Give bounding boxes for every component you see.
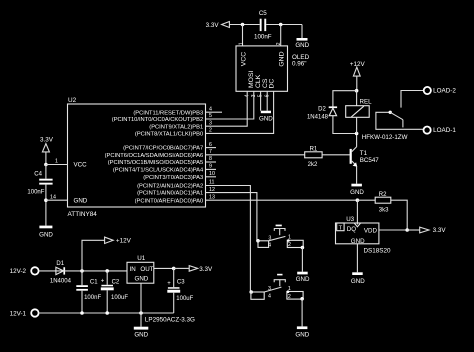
capacitor C2 (polarized) bbox=[101, 271, 129, 313]
wire 12V-2 to D1 bbox=[39, 270, 56, 272]
pin 11 PA2 bbox=[209, 180, 215, 186]
svg-text:(PCINT2/AIN1/ADC2)PA2: (PCINT2/AIN1/ADC2)PA2 bbox=[137, 184, 203, 190]
wire DQ node down to U3 bbox=[356, 200, 358, 224]
svg-text:100nF: 100nF bbox=[254, 34, 272, 41]
wire PA0 to DS18S20 DQ node bbox=[206, 199, 358, 201]
ic U3 DS18S20 bbox=[336, 216, 391, 254]
wire top node to D2 branch bbox=[333, 91, 357, 108]
relay contact common wire bbox=[376, 112, 424, 129]
wire OLED MOSI down to PB1 row bbox=[206, 91, 248, 126]
svg-text:4: 4 bbox=[209, 106, 212, 112]
relay contact blade bbox=[390, 112, 403, 119]
svg-text:3.3V: 3.3V bbox=[199, 266, 213, 273]
supply +12V (relay, up arrow) bbox=[350, 61, 366, 91]
pin 12 PA1 bbox=[209, 187, 215, 193]
OLED pin name GND bbox=[278, 51, 285, 66]
pin name PA4 bbox=[113, 168, 204, 174]
pin 3 (OLED CLK) bbox=[251, 94, 257, 97]
junction relay top node bbox=[355, 89, 359, 93]
svg-text:3.3V: 3.3V bbox=[40, 136, 54, 143]
svg-text:GND: GND bbox=[135, 275, 149, 282]
pin name PA3 bbox=[143, 175, 203, 181]
button S2 right contact pins 1/2 bbox=[287, 286, 303, 300]
button S2 actuator bbox=[274, 274, 285, 286]
svg-text:2k2: 2k2 bbox=[308, 162, 318, 168]
wire PA6 to R1 bbox=[206, 154, 305, 156]
wire 3.3V rail to C5 left bbox=[229, 24, 259, 26]
svg-text:GND: GND bbox=[351, 278, 365, 285]
junction C2 top node bbox=[105, 269, 109, 273]
svg-text:(PCINT0/AREF/ADC0)PA0: (PCINT0/AREF/ADC0)PA0 bbox=[135, 198, 204, 204]
ground (U1 / rail) bbox=[134, 327, 149, 339]
svg-text:5: 5 bbox=[209, 113, 212, 119]
wire ground rail 12V-1 bbox=[39, 312, 174, 314]
pin 4 stub PB3 bbox=[206, 106, 223, 112]
svg-text:1: 1 bbox=[288, 235, 291, 241]
OLED pin name CLK bbox=[255, 74, 262, 88]
svg-text:9: 9 bbox=[209, 164, 212, 170]
supply 3.3V (after U1, right arrow) bbox=[174, 266, 213, 273]
connector LOAD-2 bbox=[424, 87, 457, 95]
svg-text:IN: IN bbox=[130, 266, 136, 273]
junction S1 left node bbox=[256, 239, 260, 243]
svg-text:ATTINY84: ATTINY84 bbox=[68, 211, 98, 218]
wire U3 VDD to 3.3V node bbox=[379, 229, 407, 231]
OLED pin name VCC bbox=[240, 52, 247, 66]
pin 6 (OLED DC) bbox=[264, 94, 270, 97]
ground (S1) bbox=[296, 272, 310, 284]
svg-text:12V-2: 12V-2 bbox=[10, 268, 27, 275]
svg-text:6: 6 bbox=[209, 142, 212, 148]
pin 14 GND wire bbox=[46, 194, 68, 200]
svg-text:3: 3 bbox=[209, 120, 212, 126]
svg-text:HFKW-012-1ZW: HFKW-012-1ZW bbox=[362, 134, 408, 141]
wire R1 to T1 base bbox=[322, 154, 350, 156]
wire U1 output to C3 node bbox=[154, 267, 174, 269]
svg-text:1: 1 bbox=[288, 286, 291, 292]
svg-text:C5: C5 bbox=[259, 10, 267, 17]
connector 12V-1 bbox=[10, 309, 39, 317]
wire PA2 to button S2 bbox=[206, 186, 251, 293]
pin name PB0 bbox=[135, 132, 203, 138]
diode D2 1N4148 bbox=[307, 106, 337, 120]
supply 3.3V (left of U2, up arrow) bbox=[40, 136, 54, 164]
svg-text:1N4004: 1N4004 bbox=[50, 278, 72, 284]
pin 5 (OLED CS) bbox=[258, 94, 264, 97]
pin 10 stub PA3 bbox=[206, 171, 217, 177]
pin name PA6 bbox=[105, 153, 204, 159]
junction DQ node bbox=[356, 198, 360, 202]
wire OLED pin2 GND drop bbox=[280, 25, 282, 46]
pin 13 PA0 bbox=[209, 194, 215, 200]
svg-text:R1: R1 bbox=[310, 146, 318, 152]
capacitor C3 (polarized) bbox=[167, 268, 193, 313]
wire D1 to U1 input bbox=[56, 270, 127, 272]
svg-text:1: 1 bbox=[55, 159, 58, 165]
pin name PA7 bbox=[123, 146, 203, 152]
supply 3.3V (top, left-pointing arrow) bbox=[206, 22, 230, 29]
svg-text:U3: U3 bbox=[346, 216, 354, 223]
svg-text:GND: GND bbox=[278, 51, 285, 66]
supply +12V (bottom left, right arrow) bbox=[82, 237, 132, 271]
svg-text:(PCINT10/INT0/OC0A/CKOUT)PB2: (PCINT10/INT0/OC0A/CKOUT)PB2 bbox=[112, 117, 203, 123]
pin name PB2 bbox=[112, 117, 203, 123]
svg-text:2: 2 bbox=[276, 42, 282, 45]
OLED pin name MOSI bbox=[248, 71, 255, 88]
svg-text:12: 12 bbox=[209, 187, 215, 193]
pin 1 (OLED VCC) bbox=[239, 42, 245, 45]
OLED pin name CS bbox=[262, 78, 269, 88]
svg-text:GND: GND bbox=[295, 331, 309, 338]
junction 3.3V pull-up node bbox=[405, 228, 409, 232]
svg-text:GND: GND bbox=[295, 42, 309, 49]
svg-text:8: 8 bbox=[209, 156, 212, 162]
wire OLED extra pin down to PB0 row bbox=[206, 91, 274, 133]
relay coil REL bbox=[346, 91, 408, 141]
button S2 blade bbox=[264, 287, 281, 292]
junction collector node bbox=[355, 132, 359, 136]
pin name PB1 bbox=[149, 124, 203, 130]
svg-text:DQ: DQ bbox=[347, 226, 356, 233]
svg-text:2: 2 bbox=[288, 242, 291, 248]
pin name PA2 bbox=[137, 184, 203, 190]
svg-text:U1: U1 bbox=[137, 255, 146, 262]
ground (below C4) bbox=[39, 226, 53, 239]
svg-text:4: 4 bbox=[268, 243, 271, 249]
wire T1 emitter down bbox=[356, 166, 358, 184]
wire OLED CS down to ground bbox=[260, 91, 262, 110]
svg-text:C4: C4 bbox=[34, 172, 42, 178]
junction relay contact pivot bbox=[389, 111, 392, 114]
svg-text:100uF: 100uF bbox=[176, 296, 193, 302]
pin 2 PB0 bbox=[209, 128, 212, 134]
pin 2 (OLED GND) bbox=[276, 42, 282, 45]
button S1 right contact pins 1/2 bbox=[287, 235, 303, 249]
svg-text:(PCINT9/XTAL2)PB1: (PCINT9/XTAL2)PB1 bbox=[149, 124, 203, 130]
svg-text:D2: D2 bbox=[318, 106, 326, 112]
svg-text:GND: GND bbox=[39, 232, 53, 239]
svg-text:VDD: VDD bbox=[364, 227, 378, 234]
junction U1 GND bottom bbox=[139, 311, 143, 315]
svg-text:GND: GND bbox=[259, 115, 273, 122]
svg-text:(PCINT4/T1/SCL/USCK/ADC4)PA4: (PCINT4/T1/SCL/USCK/ADC4)PA4 bbox=[113, 168, 204, 174]
svg-text:+: + bbox=[101, 279, 105, 285]
svg-text:3k3: 3k3 bbox=[379, 208, 389, 214]
svg-text:DC: DC bbox=[269, 79, 276, 89]
svg-text:LP2950ACZ-3.3G: LP2950ACZ-3.3G bbox=[145, 316, 195, 323]
svg-text:GND: GND bbox=[134, 332, 148, 339]
svg-text:BC547: BC547 bbox=[360, 157, 379, 164]
junction C1 bottom bbox=[80, 311, 84, 315]
svg-text:VCC: VCC bbox=[74, 162, 88, 169]
ground (U3) bbox=[351, 272, 365, 285]
svg-text:GND: GND bbox=[296, 276, 310, 283]
svg-text:D1: D1 bbox=[56, 261, 64, 267]
button S1 left contact pins 3/4 bbox=[258, 235, 271, 248]
capacitor C5 bbox=[254, 10, 272, 41]
svg-text:1N4148: 1N4148 bbox=[307, 114, 329, 120]
wire down to GND (top right) bbox=[301, 25, 303, 39]
ground (top right of C5) bbox=[295, 38, 309, 49]
supply 3.3V (right, arrow) bbox=[407, 227, 446, 234]
pin 9 stub PA4 bbox=[206, 164, 217, 170]
svg-text:REL: REL bbox=[360, 98, 373, 105]
pin 7 PA6 bbox=[209, 149, 212, 155]
ground (OLED CS/DC) bbox=[259, 111, 273, 123]
svg-text:1: 1 bbox=[239, 42, 245, 45]
svg-text:100uF: 100uF bbox=[111, 295, 128, 301]
OLED display module box bbox=[236, 46, 310, 91]
pin 6 stub PA7 bbox=[206, 142, 217, 148]
svg-text:U2: U2 bbox=[68, 97, 77, 104]
svg-text:C3: C3 bbox=[177, 280, 185, 286]
svg-text:4: 4 bbox=[268, 294, 271, 300]
capacitor C1 bbox=[76, 271, 101, 313]
wire OLED pin1 VCC drop bbox=[242, 25, 244, 46]
wire U1 GND pin down bbox=[140, 283, 142, 327]
wire U3 GND down bbox=[356, 244, 358, 272]
wire DQ node to R2 bbox=[357, 199, 375, 201]
svg-text:(PCINT8/XTAL1/CLKI)PB0: (PCINT8/XTAL1/CLKI)PB0 bbox=[135, 132, 203, 138]
svg-text:10: 10 bbox=[209, 171, 215, 177]
junction VCC pin1 node bbox=[44, 163, 48, 167]
pin name PA1 bbox=[137, 191, 203, 197]
svg-text:LOAD-1: LOAD-1 bbox=[433, 127, 456, 134]
svg-text:2: 2 bbox=[288, 294, 291, 300]
svg-text:100nF: 100nF bbox=[84, 295, 101, 301]
button S1 blade bbox=[269, 236, 286, 240]
svg-text:OUT: OUT bbox=[140, 266, 153, 273]
wire OLED DC down to ground bar bbox=[266, 91, 268, 110]
resistor R1 bbox=[305, 146, 322, 168]
wire PA1 to button S1 bbox=[206, 193, 259, 241]
svg-text:13: 13 bbox=[209, 194, 215, 200]
svg-text:GND: GND bbox=[350, 189, 364, 196]
svg-text:14: 14 bbox=[50, 194, 56, 200]
wire S1 to ground bbox=[301, 247, 303, 271]
junction GND pin14 node bbox=[44, 198, 48, 202]
wire R2 to 3.3V node bbox=[391, 200, 407, 230]
svg-text:LOAD-2: LOAD-2 bbox=[433, 88, 456, 95]
svg-text:(PCINT5/OC1B/MISO/DO/ADC5)PA5: (PCINT5/OC1B/MISO/DO/ADC5)PA5 bbox=[108, 160, 203, 166]
transistor T1 BC547 bbox=[350, 147, 380, 167]
svg-text:7: 7 bbox=[209, 149, 212, 155]
junction C2 bottom bbox=[105, 311, 109, 315]
svg-text:+12V: +12V bbox=[116, 238, 132, 245]
wire OLED CLK down to PB2 row bbox=[206, 91, 254, 119]
svg-text:T: T bbox=[339, 225, 343, 231]
ic U2 ATTINY84 box bbox=[68, 97, 206, 218]
OLED pin name DC bbox=[269, 79, 276, 89]
wire LOAD-2 to contact bbox=[401, 91, 424, 108]
junction S2 right node bbox=[300, 297, 304, 301]
junction OLED VCC node bbox=[241, 23, 245, 27]
junction S2 left node bbox=[249, 290, 253, 294]
svg-text:0.96": 0.96" bbox=[292, 61, 307, 68]
connector LOAD-1 bbox=[424, 127, 457, 134]
svg-text:(PCINT3/T0/ADC3)PA3: (PCINT3/T0/ADC3)PA3 bbox=[143, 175, 203, 181]
connector 12V-2 bbox=[10, 267, 39, 275]
svg-text:C1: C1 bbox=[90, 280, 98, 286]
pin name PA0 bbox=[135, 198, 204, 204]
pin 1 VCC wire bbox=[46, 159, 68, 165]
relay contact NO stub bbox=[402, 120, 404, 128]
pin name PB3 bbox=[133, 110, 203, 116]
wire C5 right to GND drop bbox=[266, 24, 302, 26]
svg-text:GND: GND bbox=[74, 197, 88, 204]
button S1 actuator bbox=[274, 225, 285, 236]
capacitor C4 bbox=[27, 165, 52, 226]
svg-text:DS18S20: DS18S20 bbox=[364, 247, 391, 254]
diode D1 1N4004 bbox=[50, 261, 72, 284]
ic U1 LP2950 regulator bbox=[127, 255, 195, 324]
ground (T1 emitter) bbox=[350, 184, 364, 196]
svg-text:VCC: VCC bbox=[240, 52, 247, 66]
svg-text:(PCINT7/ICP/OC0B/ADC7)PA7: (PCINT7/ICP/OC0B/ADC7)PA7 bbox=[123, 146, 203, 152]
button S2 left contact pins 3/4 bbox=[251, 286, 271, 299]
pin 5 PB2 bbox=[209, 113, 212, 119]
junction S1 right node bbox=[301, 246, 305, 250]
svg-text:11: 11 bbox=[209, 180, 215, 186]
pin 8 stub PA5 bbox=[206, 156, 217, 162]
svg-text:2: 2 bbox=[209, 128, 212, 134]
wire T1 collector up bbox=[356, 134, 358, 147]
svg-text:100nF: 100nF bbox=[27, 190, 44, 196]
svg-text:+12V: +12V bbox=[350, 61, 366, 68]
svg-text:(PCINT6/OC1A/SDA/MOSI/ADC6)PA6: (PCINT6/OC1A/SDA/MOSI/ADC6)PA6 bbox=[105, 153, 204, 159]
wire S2 to ground bbox=[301, 299, 303, 327]
svg-text:(PCINT1/AIN0/ADC1)PA1: (PCINT1/AIN0/ADC1)PA1 bbox=[137, 191, 203, 197]
pin 3 PB1 bbox=[209, 120, 212, 126]
svg-text:+: + bbox=[167, 281, 171, 287]
svg-text:3.3V: 3.3V bbox=[433, 227, 447, 234]
junction C1 top node bbox=[80, 269, 84, 273]
junction C3 top node bbox=[172, 267, 176, 271]
svg-text:R2: R2 bbox=[379, 192, 387, 198]
wire D2 bottom to collector node bbox=[333, 116, 357, 134]
pin 4 (OLED MOSI) bbox=[244, 94, 250, 97]
svg-text:12V-1: 12V-1 bbox=[10, 310, 27, 317]
svg-text:T1: T1 bbox=[360, 150, 368, 157]
ground (S2) bbox=[295, 326, 309, 338]
resistor R2 bbox=[375, 192, 391, 214]
svg-text:3.3V: 3.3V bbox=[206, 22, 220, 29]
junction OLED GND node bbox=[279, 23, 283, 27]
svg-text:(PCINT11/RESET/DW)PB3: (PCINT11/RESET/DW)PB3 bbox=[133, 110, 203, 116]
pin name PA5 bbox=[108, 160, 203, 166]
